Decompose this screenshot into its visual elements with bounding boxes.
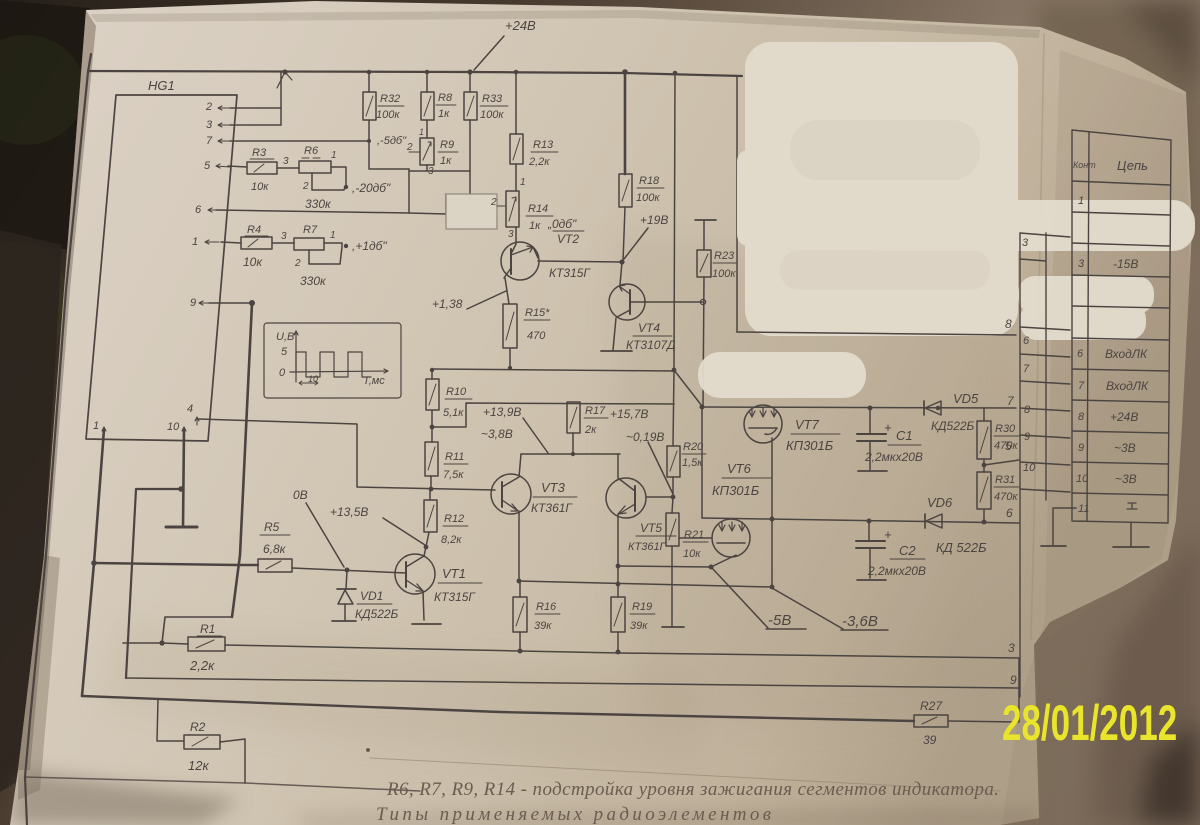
- wire R13 bottom, tick 1: [515, 164, 517, 191]
- trimmer R6: [299, 145, 337, 211]
- wire pin1 to R4: [221, 242, 241, 243]
- wire VT2 collector: [538, 261, 622, 262]
- diode VD5: [924, 391, 979, 433]
- node 0dB: [547, 217, 584, 246]
- svg-text:100к: 100к: [712, 268, 736, 280]
- svg-text:-3,6В: -3,6В: [842, 613, 878, 630]
- svg-text:~3,8В: ~3,8В: [481, 427, 513, 441]
- wire R30/R31 node to connector 5: [984, 460, 1019, 465]
- svg-text:„0дб": „0дб": [547, 217, 577, 231]
- svg-text:R5: R5: [264, 520, 280, 534]
- svg-text:R18: R18: [639, 175, 660, 187]
- svg-text:7: 7: [1023, 363, 1030, 375]
- svg-text:Типы применяемых радиоэлемен: Типы применяемых радиоэлементов: [376, 804, 771, 825]
- svg-text:,+1дб": ,+1дб": [352, 239, 387, 253]
- transistor VT4: [609, 284, 676, 352]
- svg-text:1: 1: [331, 150, 337, 161]
- svg-text:+15,7В: +15,7В: [610, 407, 648, 421]
- svg-text:470к: 470к: [994, 491, 1018, 503]
- node +1,38: [432, 291, 506, 311]
- svg-text:9: 9: [1010, 673, 1017, 687]
- wire R6 wiper: [312, 173, 345, 190]
- svg-text:9: 9: [1078, 442, 1084, 454]
- svg-text:10к: 10к: [683, 548, 701, 560]
- node +19V: [619, 213, 668, 265]
- svg-text:39: 39: [923, 733, 937, 747]
- resistor R2: [157, 699, 245, 783]
- arrow on border at pins feed: [277, 72, 292, 88]
- indicator HG1 block: [86, 78, 237, 441]
- node +15,7V: [610, 407, 673, 494]
- svg-text:10к: 10к: [251, 181, 269, 193]
- diode VD1: [337, 570, 399, 621]
- svg-text:2,2к: 2,2к: [528, 156, 550, 168]
- wire pin7 to R32 bottom node: [230, 140, 369, 142]
- svg-text:R6, R7, R9, R14 - подстройка: R6, R7, R9, R14 - подстройка уровня зажи…: [386, 779, 999, 800]
- svg-text:R1: R1: [200, 622, 215, 636]
- wire bias rail W1: [432, 369, 674, 371]
- wire R6 right to node -20dB: [331, 167, 346, 186]
- svg-text:6: 6: [1023, 335, 1030, 347]
- svg-text:39к: 39к: [534, 620, 552, 632]
- svg-text:VT3: VT3: [541, 480, 566, 495]
- wire VT4 collector up: [620, 262, 622, 285]
- svg-text:КД522Б: КД522Б: [931, 419, 975, 433]
- svg-text:VT6: VT6: [727, 461, 752, 476]
- svg-text:Цепь: Цепь: [1117, 158, 1148, 173]
- wire diagonal to VT7 corner: [674, 370, 702, 406]
- svg-text:10: 10: [308, 374, 318, 384]
- svg-text:R31: R31: [995, 474, 1015, 486]
- svg-text:ВходЛК: ВходЛК: [1105, 347, 1148, 361]
- svg-text:+: +: [884, 420, 892, 435]
- wire pin10 drop to ground: [183, 429, 184, 527]
- svg-text:КП301Б: КП301Б: [786, 438, 834, 453]
- svg-text:2,2мкх20В: 2,2мкх20В: [867, 564, 926, 578]
- wire VT3 bottom: [518, 511, 520, 581]
- svg-text:R15*: R15*: [525, 307, 550, 319]
- svg-text:12к: 12к: [188, 758, 209, 773]
- svg-text:1к: 1к: [438, 108, 450, 120]
- svg-text:8,2к: 8,2к: [441, 534, 462, 546]
- svg-text:R3: R3: [252, 147, 267, 159]
- transistor VT2: [501, 242, 591, 280]
- svg-text:+24В: +24В: [1110, 410, 1138, 424]
- signal table: [1072, 130, 1171, 523]
- wire VT4 emitter: [613, 318, 616, 350]
- junction dots on top border: [282, 69, 677, 75]
- wire R3 to R6, pin label 3: [277, 167, 299, 169]
- svg-text:5: 5: [1005, 439, 1012, 453]
- svg-text:VD1: VD1: [360, 589, 383, 603]
- transistor VT7: [744, 405, 840, 453]
- wire R18 bottom to +19V node: [623, 207, 625, 262]
- wire R33 bottom to erased block: [469, 120, 471, 194]
- svg-text:VT4: VT4: [638, 321, 660, 335]
- connector pin11 ground lead: [1053, 508, 1076, 545]
- svg-text:КТ315Г: КТ315Г: [549, 266, 591, 280]
- svg-text:3: 3: [1022, 237, 1029, 249]
- svg-text:10: 10: [167, 421, 180, 433]
- resistor R5: [258, 520, 292, 572]
- svg-text:~3В: ~3В: [1115, 472, 1137, 486]
- svg-text:1: 1: [419, 127, 424, 137]
- svg-text:100к: 100к: [480, 109, 504, 121]
- svg-text:100к: 100к: [636, 192, 660, 204]
- svg-text:ВходЛК: ВходЛК: [1106, 379, 1149, 393]
- svg-text:R19: R19: [632, 601, 652, 613]
- svg-text:8: 8: [1024, 404, 1031, 416]
- wire VT5 base to column: [646, 496, 673, 498]
- svg-text:+13,9В: +13,9В: [483, 405, 521, 419]
- resistor R31: [977, 472, 1019, 522]
- frame border left: [25, 54, 91, 825]
- svg-text:-5В: -5В: [768, 612, 791, 629]
- svg-text:VT2: VT2: [557, 232, 579, 246]
- resistor R16: [513, 581, 560, 651]
- long column from border to R20/R21: [674, 73, 675, 370]
- wire R5 to VT1 base: [292, 568, 406, 573]
- node -20dB: [344, 181, 391, 195]
- svg-text:R8: R8: [438, 92, 453, 104]
- svg-text:C1: C1: [896, 428, 913, 443]
- paper inner shading: [1002, 50, 1190, 825]
- svg-text:R30: R30: [995, 423, 1016, 435]
- svg-text:3: 3: [281, 231, 287, 242]
- svg-text:+1,38: +1,38: [432, 297, 463, 311]
- svg-text:R32: R32: [380, 93, 400, 105]
- wire top feed VT4 corner column: [736, 76, 738, 332]
- svg-text:~3В: ~3В: [1114, 441, 1136, 455]
- rail 3 bottom: [225, 645, 1019, 658]
- frame border bottom: [25, 777, 420, 791]
- wire pin5 to R3: [228, 166, 247, 167]
- svg-text:7: 7: [1078, 380, 1085, 392]
- transistor VT3: [491, 454, 577, 515]
- svg-text:R7: R7: [303, 224, 318, 236]
- svg-text:8: 8: [1078, 411, 1085, 423]
- svg-text:330к: 330к: [300, 274, 327, 288]
- svg-text:1: 1: [192, 236, 198, 248]
- svg-text:6: 6: [1077, 348, 1084, 360]
- svg-text:8: 8: [1005, 317, 1012, 331]
- svg-text:КП301Б: КП301Б: [712, 483, 760, 498]
- svg-text:9: 9: [190, 297, 196, 309]
- svg-text:2,2мкх20В: 2,2мкх20В: [864, 450, 923, 464]
- wire R15 bottom: [509, 348, 511, 368]
- wire R7 right to node +1dB: [324, 243, 342, 246]
- svg-text:7: 7: [1007, 394, 1015, 408]
- svg-text:R17: R17: [585, 405, 606, 417]
- capacitor C1: [857, 408, 923, 471]
- waveform box: [264, 323, 401, 398]
- node -5dB: [367, 135, 407, 147]
- svg-text:-15В: -15В: [1113, 257, 1138, 271]
- rail common thick: [82, 696, 914, 721]
- trimmer R7: [294, 224, 336, 288]
- node +24V: [474, 18, 536, 70]
- svg-text:U,В: U,В: [276, 331, 294, 343]
- resistor R15: [503, 304, 550, 348]
- wire column to R20: [673, 370, 674, 446]
- date stamp: [1002, 694, 1177, 752]
- erased block: [446, 194, 497, 229]
- svg-text:2: 2: [406, 142, 413, 153]
- svg-text:R23: R23: [714, 250, 735, 262]
- wire VT5 bottom: [617, 514, 619, 597]
- svg-text:КД522Б: КД522Б: [355, 607, 399, 621]
- resistor R10: [426, 370, 472, 427]
- wire labels to connector: [1005, 394, 1015, 520]
- frame border top: [88, 71, 742, 76]
- wire pin3: [230, 124, 281, 126]
- svg-text:10к: 10к: [243, 255, 263, 269]
- wire pin9 to thick vertical: [209, 302, 252, 304]
- diode VD6: [925, 495, 987, 555]
- wire output 8 over patch: [737, 332, 1016, 335]
- svg-text:+: +: [884, 527, 892, 542]
- transistor VT5: [606, 454, 676, 553]
- resistor R3: [247, 147, 277, 193]
- resistor R13: [510, 72, 558, 168]
- svg-text:R4: R4: [247, 224, 261, 236]
- wire R9 to R33 column: [427, 170, 470, 172]
- wire emitters rail VT3-VT5: [521, 453, 620, 455]
- svg-text:КТ361Г: КТ361Г: [531, 501, 573, 515]
- svg-text:39к: 39к: [630, 620, 648, 632]
- resistor R18: [619, 71, 664, 207]
- svg-text:R11: R11: [445, 451, 464, 463]
- transistor VT1: [395, 547, 482, 604]
- node +13,5V: [330, 505, 428, 549]
- svg-text:+13,5В: +13,5В: [330, 505, 368, 519]
- svg-text:R14: R14: [528, 203, 548, 215]
- wire pin9 link to R1 node: [123, 617, 232, 643]
- resistor R27: [914, 699, 948, 747]
- common bar VT1: [412, 623, 441, 625]
- svg-text:1: 1: [520, 177, 526, 188]
- svg-text:7: 7: [206, 135, 213, 147]
- svg-text:R2: R2: [190, 720, 206, 734]
- resistor R20: [667, 441, 706, 497]
- resistor R1: [162, 622, 225, 673]
- svg-text:КТ361Г: КТ361Г: [628, 541, 667, 553]
- trimmer R14: [490, 191, 553, 240]
- svg-text:R13: R13: [533, 139, 554, 151]
- svg-text:330к: 330к: [305, 197, 332, 211]
- common bar R21: [662, 626, 684, 628]
- transistor VT6: [711, 461, 772, 567]
- wire VT1 emitter: [423, 591, 424, 620]
- wire pin2: [230, 107, 281, 109]
- resistor R32: [363, 72, 404, 121]
- svg-text:11: 11: [1078, 503, 1089, 515]
- wire lower rail to -3,6V: [519, 581, 771, 587]
- svg-text:5: 5: [204, 160, 211, 172]
- svg-text:10: 10: [1076, 473, 1089, 485]
- wire R5 feed: [94, 563, 258, 565]
- common bar VD1: [332, 620, 356, 622]
- svg-text:VT5: VT5: [640, 521, 662, 535]
- resistor R33: [464, 72, 508, 121]
- ground pin11: [1041, 545, 1066, 547]
- svg-text:+24В: +24В: [505, 18, 536, 33]
- resistor R19: [611, 597, 655, 652]
- svg-text:2к: 2к: [584, 424, 597, 436]
- connector strip: [1020, 233, 1070, 697]
- wire pin1 thick drop: [82, 429, 104, 696]
- svg-text:1: 1: [330, 230, 336, 241]
- wire VT5/VT6 source rail: [618, 566, 711, 567]
- svg-text:1,5к: 1,5к: [682, 457, 703, 469]
- wire VT2 emitter to R15: [505, 278, 509, 304]
- pencil mark: [366, 748, 370, 752]
- svg-text:0В: 0В: [293, 488, 308, 502]
- svg-text:R10: R10: [446, 386, 467, 398]
- svg-text:VT1: VT1: [442, 566, 466, 581]
- wire R10/R11 node to R17 top rail: [432, 403, 674, 427]
- resistor R4: [241, 224, 272, 269]
- resistor R11: [425, 427, 468, 489]
- svg-text:3: 3: [508, 229, 514, 240]
- wire VT6 gate: [679, 537, 712, 539]
- wire R32 bottom: [369, 120, 409, 169]
- wire left column drop: [701, 407, 703, 518]
- resistor R8: [419, 72, 456, 138]
- svg-text:Конт: Конт: [1073, 160, 1096, 170]
- svg-text:1к: 1к: [440, 155, 452, 167]
- trimmer R9: [406, 138, 458, 177]
- svg-text:,-20дб": ,-20дб": [352, 181, 391, 195]
- svg-text:КТ3107Д: КТ3107Д: [626, 338, 676, 352]
- wire R27 to connector: [948, 658, 1019, 722]
- svg-text:R33: R33: [482, 93, 503, 105]
- svg-text:3: 3: [1008, 641, 1015, 655]
- svg-text:VT7: VT7: [795, 417, 820, 432]
- svg-text:R20: R20: [683, 441, 704, 453]
- svg-text:2,2к: 2,2к: [189, 658, 215, 673]
- svg-text:6: 6: [1006, 506, 1013, 520]
- svg-text:7,5к: 7,5к: [443, 469, 464, 481]
- ground: [166, 526, 197, 529]
- svg-text:C2: C2: [899, 543, 916, 558]
- wire lower output rail VD6: [702, 518, 1019, 523]
- svg-text:5,1к: 5,1к: [443, 407, 464, 419]
- node +13,9V: [481, 405, 548, 453]
- svg-text:6: 6: [195, 204, 202, 216]
- svg-text:,-5дб": ,-5дб": [377, 135, 407, 147]
- wire pin6 to erased block: [216, 194, 446, 214]
- wire VT4 base: [631, 301, 703, 303]
- wire pin6 riser to R9 bottom: [408, 169, 410, 213]
- wire R14 to VT2 base: [512, 227, 516, 252]
- svg-text:VD5: VD5: [953, 391, 979, 406]
- svg-text:R16: R16: [536, 601, 557, 613]
- node +1dB: [344, 239, 388, 253]
- svg-text:470: 470: [527, 330, 546, 342]
- HG1 pin labels: [93, 101, 213, 433]
- svg-text:R21: R21: [684, 529, 704, 541]
- HG1 pin ticks: [102, 106, 232, 433]
- rail 9 bottom: [126, 678, 1018, 688]
- common bar VT4: [601, 350, 632, 352]
- resistor R30: [977, 408, 1019, 472]
- node -3,6V: [772, 588, 888, 630]
- wire R23 bottom down: [703, 277, 704, 407]
- wire pin9 thick drop: [232, 303, 252, 617]
- svg-text:КТ315Г: КТ315Г: [434, 590, 476, 604]
- svg-text:~0,19В: ~0,19В: [626, 430, 664, 444]
- correction fluid patches: [698, 42, 1195, 398]
- svg-text:HG1: HG1: [148, 78, 175, 93]
- svg-text:2: 2: [294, 258, 301, 269]
- wire R9 bottom: [409, 165, 427, 171]
- resistor R12: [424, 489, 468, 547]
- resistor R17: [567, 402, 608, 454]
- svg-text:2: 2: [205, 101, 212, 113]
- wire pin4: [199, 419, 495, 490]
- node -5V: [712, 568, 806, 629]
- wire pin10 branch: [126, 489, 181, 678]
- svg-text:5: 5: [281, 346, 288, 358]
- capacitor C2: [856, 521, 926, 580]
- wire R7 wiper: [309, 247, 342, 264]
- svg-text:3: 3: [283, 156, 289, 167]
- svg-text:2: 2: [302, 181, 309, 192]
- svg-text:1к: 1к: [529, 220, 541, 232]
- svg-text:+19В: +19В: [640, 213, 668, 227]
- svg-text:10: 10: [1023, 462, 1036, 474]
- table pin11 ground symbol: [1127, 503, 1137, 509]
- svg-text:R12: R12: [444, 513, 464, 525]
- wire VT7 drain down: [771, 438, 773, 587]
- svg-text:КД 522Б: КД 522Б: [936, 540, 987, 555]
- svg-text:R27: R27: [920, 699, 943, 713]
- resistor R21: [666, 497, 708, 626]
- svg-text:100к: 100к: [376, 109, 400, 121]
- ground below table: [1130, 523, 1132, 546]
- svg-text:9: 9: [1024, 431, 1030, 443]
- svg-text:VD6: VD6: [927, 495, 953, 510]
- svg-text:3: 3: [206, 119, 213, 131]
- svg-text:2: 2: [490, 197, 497, 208]
- svg-text:0: 0: [279, 367, 286, 379]
- svg-text:R6: R6: [304, 145, 319, 157]
- svg-text:6,8к: 6,8к: [263, 542, 287, 556]
- resistor R23: [695, 220, 737, 280]
- wire R4 to R7, label 3: [272, 242, 294, 244]
- svg-text:1: 1: [93, 420, 99, 432]
- svg-text:4: 4: [187, 403, 193, 415]
- svg-text:3: 3: [1078, 258, 1085, 270]
- wire top output rail VD5: [702, 407, 1016, 408]
- svg-text:1: 1: [1078, 195, 1084, 207]
- node 0V: [293, 488, 344, 567]
- paper crease (decorative): [370, 758, 1000, 791]
- wire pins 2,3 to top border: [280, 72, 282, 125]
- svg-text:R9: R9: [440, 139, 454, 151]
